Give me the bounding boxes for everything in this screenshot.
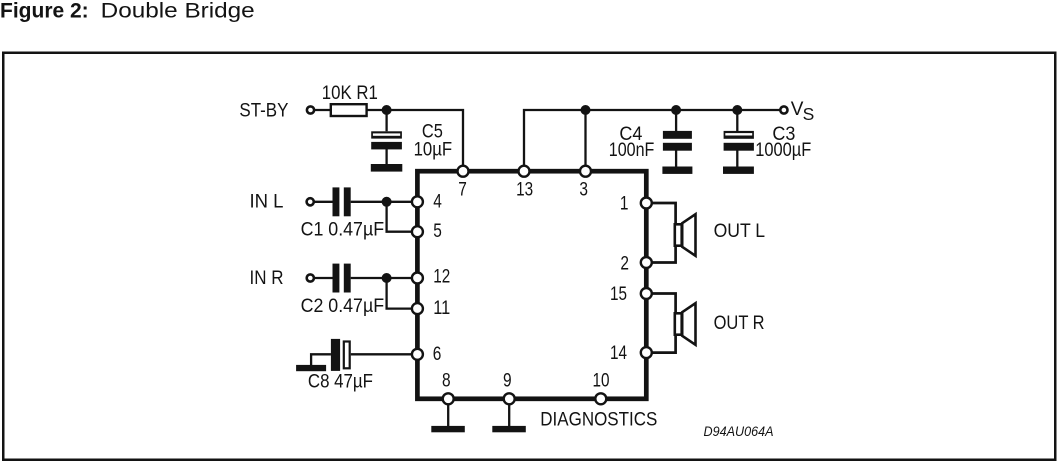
svg-text:C8 47µF: C8 47µF [308, 372, 373, 393]
svg-text:3: 3 [579, 180, 588, 201]
svg-text:10K R1: 10K R1 [322, 83, 378, 104]
svg-text:9: 9 [503, 371, 512, 392]
svg-text:ST-BY: ST-BY [239, 101, 288, 122]
svg-text:DIAGNOSTICS: DIAGNOSTICS [540, 409, 657, 430]
svg-text:100nF: 100nF [609, 140, 655, 161]
svg-text:C1 0.47µF: C1 0.47µF [301, 220, 385, 241]
svg-text:13: 13 [516, 180, 533, 201]
svg-text:D94AU064A: D94AU064A [704, 423, 774, 439]
svg-text:IN R: IN R [250, 268, 284, 289]
svg-text:10: 10 [593, 371, 610, 392]
svg-text:1: 1 [620, 194, 629, 215]
svg-text:Double Bridge: Double Bridge [101, 0, 255, 23]
svg-text:IN L: IN L [250, 191, 284, 212]
svg-text:C2 0.47µF: C2 0.47µF [301, 296, 385, 317]
svg-text:OUT R: OUT R [714, 313, 765, 334]
svg-text:5: 5 [433, 221, 442, 242]
svg-text:S: S [803, 104, 815, 124]
svg-text:1000µF: 1000µF [755, 140, 811, 161]
svg-text:2: 2 [620, 253, 629, 274]
svg-text:8: 8 [442, 371, 451, 392]
svg-text:4: 4 [433, 191, 442, 212]
svg-text:12: 12 [433, 267, 450, 288]
svg-text:OUT L: OUT L [714, 221, 766, 242]
svg-text:Figure 2:: Figure 2: [0, 0, 89, 23]
svg-text:7: 7 [458, 180, 467, 201]
svg-text:15: 15 [610, 284, 627, 305]
svg-text:11: 11 [433, 298, 450, 319]
svg-text:14: 14 [610, 343, 627, 364]
svg-text:10µF: 10µF [414, 139, 453, 160]
svg-text:6: 6 [433, 344, 442, 365]
